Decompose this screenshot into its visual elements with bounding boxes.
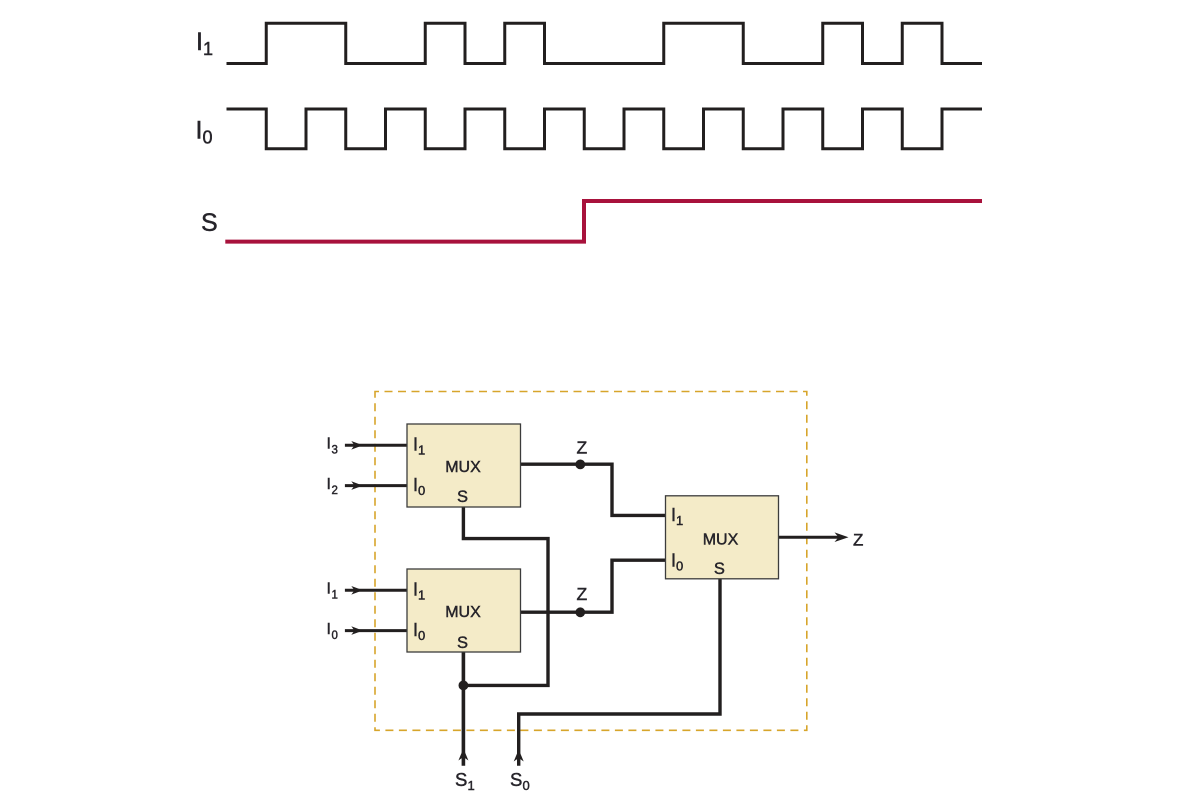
svg-text:MUX: MUX xyxy=(445,604,481,621)
svg-text:1: 1 xyxy=(203,39,213,59)
svg-text:2: 2 xyxy=(332,485,338,497)
svg-text:0: 0 xyxy=(332,630,338,642)
svg-text:Z: Z xyxy=(577,438,588,458)
svg-text:I: I xyxy=(327,436,331,453)
svg-text:0: 0 xyxy=(203,128,213,148)
svg-text:0: 0 xyxy=(418,483,425,498)
svg-text:MUX: MUX xyxy=(445,459,481,476)
svg-text:Z: Z xyxy=(577,584,588,604)
svg-text:1: 1 xyxy=(418,588,425,603)
svg-text:I: I xyxy=(196,117,203,145)
svg-text:0: 0 xyxy=(523,778,530,793)
svg-text:S: S xyxy=(457,634,468,652)
svg-text:0: 0 xyxy=(418,628,425,643)
svg-text:1: 1 xyxy=(468,778,475,793)
svg-text:1: 1 xyxy=(332,590,338,602)
svg-text:I: I xyxy=(327,621,331,638)
svg-text:Z: Z xyxy=(853,531,863,550)
svg-text:S: S xyxy=(714,560,725,578)
svg-text:1: 1 xyxy=(676,513,683,528)
svg-text:S: S xyxy=(510,769,522,790)
svg-text:I: I xyxy=(327,581,331,598)
svg-text:I: I xyxy=(196,28,203,56)
svg-text:S: S xyxy=(201,209,218,237)
svg-text:S: S xyxy=(457,488,468,506)
svg-text:1: 1 xyxy=(418,443,425,458)
svg-text:0: 0 xyxy=(676,559,683,574)
svg-text:3: 3 xyxy=(332,445,338,457)
svg-text:I: I xyxy=(327,476,331,493)
svg-text:MUX: MUX xyxy=(703,532,739,549)
svg-text:S: S xyxy=(455,769,467,790)
